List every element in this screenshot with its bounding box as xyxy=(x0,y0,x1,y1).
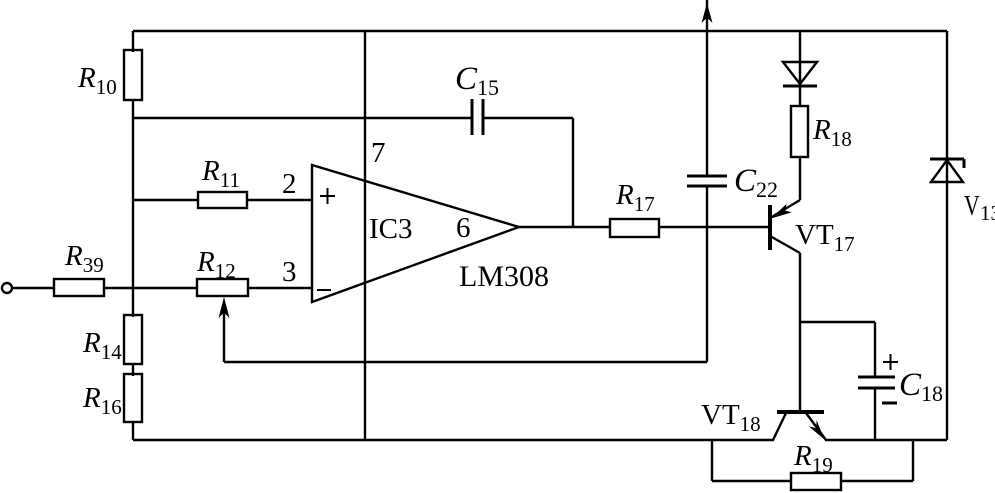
wire feedback lower (wiper line) xyxy=(224,361,707,363)
op-amp IC3 (LM308) triangle xyxy=(312,165,519,302)
wiper arrow R12 xyxy=(219,297,230,318)
transistor VT17 base bar xyxy=(768,205,772,250)
wire R17 to VT17 base xyxy=(659,226,769,228)
supply arrow xyxy=(702,3,713,23)
svg-text:V: V xyxy=(964,189,980,222)
resistor R19 xyxy=(791,473,841,490)
svg-text:IC3: IC3 xyxy=(369,213,413,245)
wire bottom rail left xyxy=(133,439,774,441)
wire R19 right stub xyxy=(912,440,914,481)
wire feedback upper (R10 bottom to C15) xyxy=(133,117,471,119)
zener diode V13 xyxy=(931,160,963,182)
resistor R14 xyxy=(124,315,142,364)
wire VT17 collector diagonal xyxy=(770,236,800,253)
VT17 emitter arrow xyxy=(771,204,792,219)
resistor R39 xyxy=(54,279,104,296)
wire VT18 left lead xyxy=(773,413,786,440)
svg-text:2: 2 xyxy=(282,168,297,200)
wire R14-R16 link xyxy=(132,364,134,376)
svg-text:7: 7 xyxy=(371,137,386,169)
wire branch to C18 xyxy=(800,321,875,323)
wire R12 to op-amp xyxy=(248,287,312,289)
op-amp minus sign xyxy=(317,289,331,291)
resistor R17 xyxy=(610,219,659,237)
wire bottom rail right xyxy=(825,439,947,441)
svg-text:LM308: LM308 xyxy=(459,260,549,293)
wire C18 bottom xyxy=(874,388,876,440)
wire VT17 emitter diagonal xyxy=(770,200,800,218)
wire C15 to output xyxy=(484,117,573,119)
resistor R18 xyxy=(791,106,808,157)
C18 plus sign xyxy=(883,361,898,363)
resistor R16 xyxy=(124,374,142,422)
wire R11 to op-amp xyxy=(247,199,312,201)
VT18 emitter arrow xyxy=(809,420,825,439)
diode (above R18) xyxy=(783,62,817,84)
wire C22 bottom to feedback line xyxy=(706,186,708,362)
capacitor C22 xyxy=(687,175,727,178)
svg-text:6: 6 xyxy=(456,212,471,244)
wire supply arrow / C22 top xyxy=(706,0,708,176)
wire R19 left stub xyxy=(711,440,713,481)
C18 minus sign xyxy=(882,402,897,405)
resistor R10 xyxy=(124,50,142,100)
wire pin2 input xyxy=(133,199,198,201)
wire VT17 emitter vertical xyxy=(799,157,801,200)
wire pin7 supply vertical xyxy=(364,31,366,440)
wire input to R39 xyxy=(12,287,54,289)
wire R19 bottom right xyxy=(841,480,913,482)
capacitor C15 xyxy=(471,99,474,135)
wire VT18 right lead xyxy=(806,413,826,440)
resistor R12 (potentiometer) xyxy=(197,279,248,296)
resistor R11 xyxy=(198,192,247,208)
wire R39 to R12 xyxy=(104,287,197,289)
capacitor C18 xyxy=(858,376,895,379)
wire right rail xyxy=(946,31,948,440)
wire R18 top to diode xyxy=(799,31,801,106)
wire op-amp output xyxy=(519,226,610,228)
wire left rail upper xyxy=(132,31,134,52)
svg-text:3: 3 xyxy=(282,256,297,288)
wire VT17 collector vertical xyxy=(799,253,801,412)
wire left rail middle xyxy=(132,100,134,317)
transistor VT18 base bar xyxy=(777,410,824,414)
op-amp plus sign xyxy=(320,195,335,197)
wire top rail xyxy=(133,30,947,32)
input terminal xyxy=(2,283,12,293)
svg-text:13: 13 xyxy=(980,201,995,225)
wire left rail lower xyxy=(132,422,134,440)
wire R19 bottom left xyxy=(712,480,791,482)
wire wiper shaft xyxy=(223,310,225,362)
